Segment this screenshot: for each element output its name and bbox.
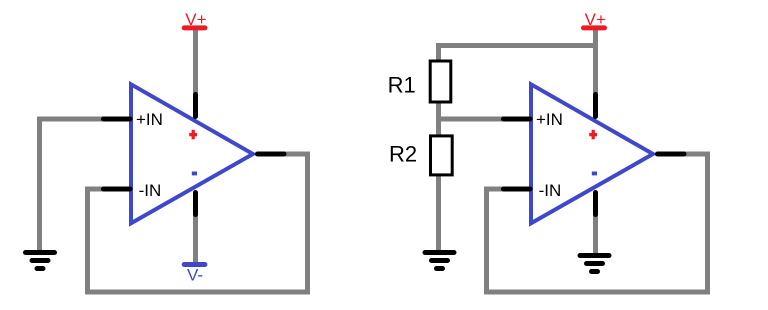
wire: V+ supply wire down to op-amp top xyxy=(193,28,198,95)
op-amp U1 triangle xyxy=(131,84,253,223)
wire: V+ supply down to op-amp top xyxy=(593,28,598,95)
wire: V+ rail across top to R1 xyxy=(439,46,596,61)
pin: output pin (right) xyxy=(658,152,685,157)
pin: -IN pin xyxy=(104,187,131,192)
svg-text:V-: V- xyxy=(187,265,203,284)
ground GND1 (input ground) xyxy=(23,250,57,271)
svg-text:R2: R2 xyxy=(389,142,417,167)
pin: output pin xyxy=(258,152,285,157)
V+ supply bar (right) xyxy=(581,25,607,30)
svg-text:V+: V+ xyxy=(185,10,206,29)
pin: V+ power pin (right) xyxy=(593,95,598,117)
pin: -IN pin (right) xyxy=(504,187,531,192)
wire: V- supply wire from op-amp bottom xyxy=(193,214,198,265)
pin: V- power pin (right) xyxy=(593,193,598,215)
svg-text:V+: V+ xyxy=(585,10,606,29)
wire: feedback loop from -IN around bottom to output (right) xyxy=(487,154,708,292)
mark: blue - (inverting) right xyxy=(592,172,597,176)
op-amp U2 triangle xyxy=(531,84,653,223)
wire: op-amp bottom to ground xyxy=(593,214,598,256)
svg-text:+IN: +IN xyxy=(536,110,563,129)
V- supply bar xyxy=(182,262,208,267)
ground GND3 (below op-amp) xyxy=(578,253,612,274)
mark: red + (non-inverting) left xyxy=(189,130,197,140)
svg-text:-IN: -IN xyxy=(539,181,562,200)
wire: R2 bottom to ground xyxy=(436,175,441,253)
wire: feedback loop from -IN around bottom to output xyxy=(88,154,308,292)
V+ supply bar (left) xyxy=(182,25,208,30)
svg-text:-IN: -IN xyxy=(139,181,162,200)
pin: V+ power pin xyxy=(193,95,198,117)
svg-text:+IN: +IN xyxy=(136,110,163,129)
mark: blue - (inverting) left xyxy=(192,172,197,176)
resistor R2 xyxy=(431,136,453,175)
mark: red + (non-inverting) right xyxy=(589,130,597,140)
resistor R1 xyxy=(430,61,451,102)
wire: +IN input wire to ground (left vertical + horizontal) xyxy=(40,119,104,252)
pin: V- power pin xyxy=(193,193,198,215)
wire: R1-R2 junction to +IN xyxy=(439,101,504,135)
pin: +IN pin xyxy=(104,117,131,122)
svg-text:R1: R1 xyxy=(388,72,416,97)
ground GND2 (below R2) xyxy=(423,250,457,271)
pin: +IN pin (right) xyxy=(504,117,531,122)
